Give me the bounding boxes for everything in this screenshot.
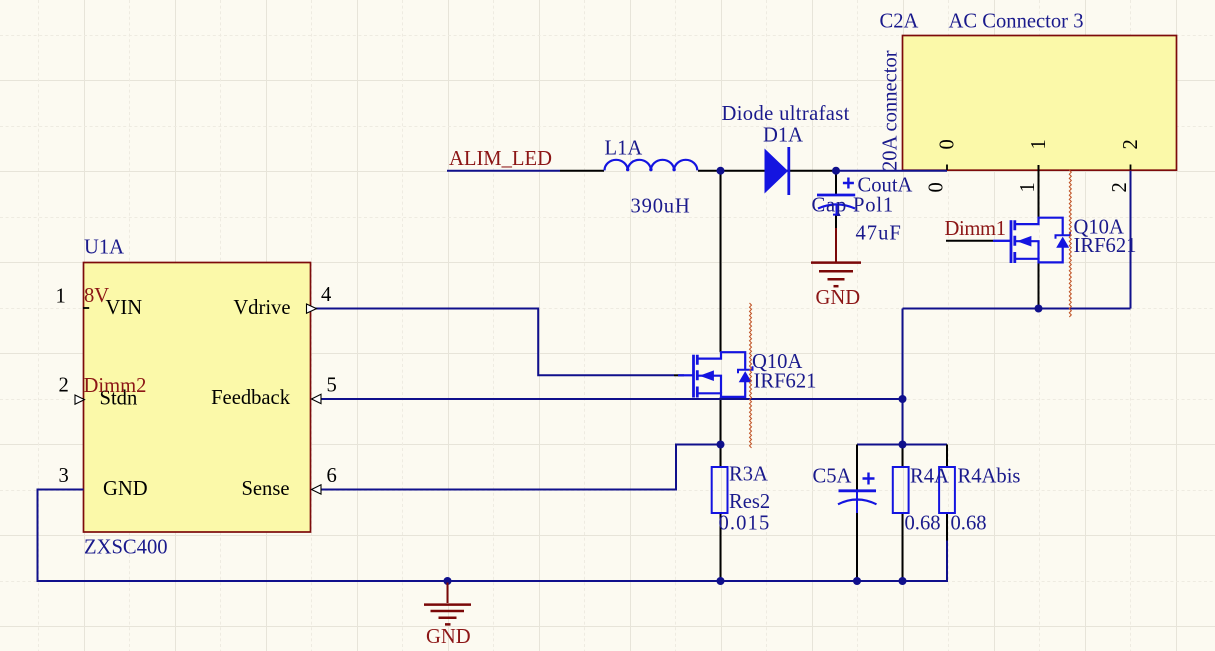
pin CoutA.2 [835, 216, 837, 229]
pin R4Abis.2 [946, 513, 948, 541]
svg-text:C5A: C5A [813, 466, 852, 488]
svg-text:0.68: 0.68 [905, 513, 941, 535]
pin connector.0 stub [946, 165, 948, 171]
svg-text:Cap Pol1: Cap Pol1 [812, 195, 895, 217]
svg-text:0.015: 0.015 [719, 513, 771, 535]
pin U1A.1 stub [83, 307, 89, 309]
IC U1A body [84, 263, 311, 533]
pin CoutA.1 [835, 171, 837, 194]
svg-text:U1A: U1A [84, 237, 124, 259]
svg-text:R3A: R3A [729, 464, 768, 486]
svg-text:2: 2 [1109, 182, 1131, 192]
svg-text:20A connector: 20A connector [880, 50, 902, 171]
svg-text:ALIM_LED: ALIM_LED [449, 148, 552, 170]
svg-text:5: 5 [327, 375, 337, 397]
wire GND rail [38, 490, 948, 582]
svg-text:AC Connector 3: AC Connector 3 [949, 11, 1084, 33]
pin glyph U1A.2 [75, 395, 85, 404]
wire node to Q10A drain (vertical) [720, 171, 722, 353]
svg-text:L1A: L1A [605, 138, 643, 160]
pin glyph U1A.4 Vdrive [307, 304, 317, 313]
svg-text:1: 1 [56, 286, 66, 308]
svg-text:CoutA: CoutA [858, 175, 913, 197]
ground symbol GND bottom [424, 583, 471, 625]
svg-text:1: 1 [1017, 182, 1039, 192]
wire R3A to ground rail [720, 513, 722, 581]
svg-text:3: 3 [59, 465, 69, 487]
wire Q10A source row to pin 2 [903, 308, 1131, 310]
wire net Dimm1 [946, 240, 993, 242]
svg-text:Feedback: Feedback [211, 387, 291, 409]
svg-text:VIN: VIN [106, 297, 143, 319]
pin connector.1 to Q10A drain [1038, 165, 1040, 218]
inductor L1A [605, 160, 698, 172]
svg-text:IRF621: IRF621 [1074, 235, 1137, 257]
capacitor C5A [838, 473, 877, 514]
wire Q10A source to R3A [720, 398, 722, 468]
wire net ALIM_LED [447, 170, 560, 172]
pin Q10A gate stub (blue) [993, 240, 1011, 242]
pin glyph U1A.6 Sense [312, 485, 322, 494]
svg-text:Vdrive: Vdrive [233, 297, 290, 319]
svg-text:GND: GND [426, 626, 471, 648]
svg-text:1: 1 [1028, 139, 1050, 149]
svg-text:D1A: D1A [763, 125, 803, 147]
pin C5A.2 [856, 513, 858, 581]
no-ERC squiggle right [1069, 170, 1071, 317]
pin C5A.1 [856, 445, 858, 491]
resistor R4A [893, 467, 909, 513]
svg-text:C2A: C2A [880, 11, 919, 33]
svg-text:47uF: 47uF [856, 223, 902, 245]
pin connector.2 stub [1130, 165, 1132, 171]
power port GND stub at CoutA [835, 228, 837, 262]
svg-text:8V: 8V [84, 285, 109, 307]
svg-text:390uH: 390uH [631, 196, 691, 218]
connector C2A body [903, 36, 1177, 171]
svg-text:Dimm1: Dimm1 [945, 218, 1006, 240]
svg-text:2: 2 [59, 375, 69, 397]
wire connector pin 2 down [1130, 171, 1132, 309]
pin U1A.2 stub [76, 398, 84, 400]
svg-text:GND: GND [816, 287, 861, 309]
svg-text:ZXSC400: ZXSC400 [84, 537, 168, 559]
ground symbol GND at CoutA [811, 263, 861, 287]
pin glyph U1A.5 Feedback [312, 394, 322, 403]
pin R4A.2 [902, 513, 904, 581]
capacitor CoutA [817, 178, 855, 216]
svg-text:R4A: R4A [910, 466, 949, 488]
svg-text:0: 0 [926, 182, 948, 192]
wire R4 tops [857, 444, 947, 446]
svg-text:0: 0 [936, 139, 958, 149]
wire down to Feedback junction [902, 309, 904, 445]
svg-text:6: 6 [327, 465, 337, 487]
svg-text:Dimm2: Dimm2 [84, 375, 147, 397]
svg-text:4: 4 [321, 284, 331, 306]
pin R4Abis.1 [946, 445, 948, 468]
svg-text:Diode ultrafast: Diode ultrafast [722, 103, 850, 125]
wire Q10A source down [1038, 262, 1040, 308]
resistor R3A [712, 467, 728, 513]
wire L1A to D1A to CoutA [698, 170, 836, 172]
svg-text:2: 2 [1120, 139, 1142, 149]
svg-text:GND: GND [103, 478, 148, 500]
pin L1A.1 [560, 170, 604, 172]
svg-text:Sense: Sense [241, 478, 289, 500]
wire Vdrive to Q10A gate [312, 309, 674, 376]
wire net Feedback [312, 398, 903, 400]
pin R4A.1 [902, 445, 904, 468]
transistor Q10A upper (IRF621) [993, 218, 1070, 263]
transistor Q10A lower (IRF621) [678, 352, 753, 397]
no-ERC squiggle middle [750, 303, 752, 448]
svg-text:Res2: Res2 [729, 491, 770, 513]
svg-text:0.68: 0.68 [951, 513, 987, 535]
resistor R4Abis [939, 467, 955, 513]
svg-text:IRF621: IRF621 [754, 371, 817, 393]
wire CoutA to connector pin 0 [836, 170, 947, 172]
wire net Sense [312, 445, 721, 490]
diode D1A [765, 147, 789, 195]
svg-text:R4Abis: R4Abis [958, 466, 1021, 488]
pin Q10A.gate (lower) [674, 374, 684, 376]
